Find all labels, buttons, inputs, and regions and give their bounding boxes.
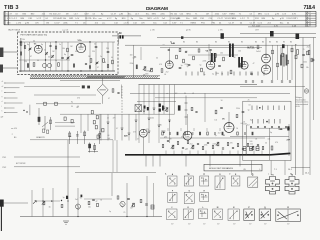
resistor smoothing (271, 146, 273, 150)
component on comb (287, 60, 289, 64)
wire tuner input rail (20, 38, 22, 72)
dashed selector line (121, 86, 123, 114)
svg-text:R2 10k: R2 10k (171, 13, 177, 15)
svg-text:2n2: 2n2 (107, 138, 110, 140)
svg-text:a 170: a 170 (154, 18, 160, 20)
mains section box (243, 101, 291, 160)
component on rectifier lead 2 (87, 86, 90, 89)
wire tuner bottom rail (19, 70, 115, 72)
resistor in output cluster (202, 146, 204, 149)
wire bandswitch vertical upper (138, 85, 140, 102)
chassis tick (239, 155, 241, 166)
earth chassis symbol (63, 221, 69, 224)
wire tuner vertical (61, 42, 63, 71)
svg-text:47: 47 (185, 149, 187, 151)
svg-text:PU2: PU2 (3, 167, 7, 169)
svg-text:470: 470 (113, 117, 116, 119)
wire base link (36, 200, 60, 202)
svg-text:EM84: EM84 (191, 22, 197, 24)
wire V4 anode (208, 44, 210, 60)
resistor output row (184, 132, 186, 135)
junction (42, 200, 43, 201)
svg-text:10k: 10k (306, 67, 309, 69)
svg-text:47: 47 (30, 56, 32, 58)
capacitor heater row (281, 81, 283, 82)
chassis tick (209, 155, 211, 166)
junction (67, 200, 68, 201)
svg-text:357: 357 (287, 224, 290, 226)
svg-text:220k: 220k (145, 74, 149, 76)
wire aerial drop (117, 36, 119, 44)
dark component small (81, 195, 83, 198)
small component mark mains row 2 (257, 119, 259, 124)
coil output row (177, 132, 179, 135)
svg-text:100: 100 (130, 55, 133, 57)
svg-text:6.3V: 6.3V (85, 13, 90, 15)
svg-text:220k: 220k (236, 108, 240, 110)
dark mark top right 1 (221, 33, 224, 39)
wire bandswitch vertical upper (148, 85, 150, 102)
svg-text:100: 100 (220, 52, 223, 54)
wire mid row 2 (36, 103, 101, 105)
capacitor in output cluster (232, 147, 234, 148)
wire bandswitch vertical long (138, 102, 140, 144)
svg-text:R2 10k: R2 10k (60, 18, 66, 20)
small component mark mains row 2 (252, 119, 254, 124)
svg-text:EM84: EM84 (230, 13, 236, 15)
resistor (117, 196, 119, 199)
valve base diagram B (184, 176, 193, 186)
wire chassis bus mid (139, 84, 258, 86)
svg-text:85: 85 (283, 42, 285, 44)
potentiometer volume VR1 (42, 201, 45, 205)
svg-text:85: 85 (276, 42, 278, 44)
svg-text:85: 85 (215, 42, 217, 44)
resistor (308, 50, 310, 55)
svg-text:L4 if: L4 if (135, 13, 139, 15)
component on comb (272, 50, 274, 54)
capacitor mains filter (285, 126, 287, 127)
svg-text:470: 470 (133, 132, 136, 134)
wire tuner vertical (55, 42, 57, 71)
aerial connector symbol (119, 32, 124, 39)
resistor anode V4 (215, 54, 217, 58)
wire tuner vertical (67, 42, 69, 71)
svg-text:5p: 5p (181, 65, 183, 67)
wire from speaker link (111, 173, 113, 196)
transistor TR2 (76, 204, 81, 210)
coil output row (252, 132, 254, 135)
svg-text:MOLEX SET FM BANDS: MOLEX SET FM BANDS (209, 167, 233, 170)
svg-text:4-9: 4-9 (1, 117, 4, 119)
switch contact (143, 110, 146, 112)
junction (80, 70, 81, 71)
svg-text:220k: 220k (243, 123, 247, 125)
wire tuner vertical (107, 42, 109, 71)
resistor in output cluster (212, 145, 214, 148)
small component mark (251, 72, 253, 76)
svg-text:8p: 8p (71, 102, 73, 104)
chassis tick (185, 155, 187, 166)
wire (116, 140, 118, 172)
coil L1 aerial (20, 52, 22, 56)
svg-text:220k: 220k (215, 13, 219, 15)
svg-text:220k: 220k (212, 144, 216, 146)
svg-text:a: a (12, 133, 13, 135)
capacitor heater row (245, 81, 247, 82)
tone network cluster (69, 131, 101, 145)
component on mid row a (44, 102, 47, 105)
component on HT rail (181, 36, 183, 39)
svg-text:2n2: 2n2 (75, 199, 78, 201)
switch contact (163, 131, 166, 133)
terminal dot (4, 98, 5, 99)
switch contact (148, 118, 151, 120)
terminal dot (4, 112, 5, 113)
svg-text:357: 357 (264, 224, 267, 226)
svg-text:6.3V: 6.3V (172, 22, 177, 24)
wire inter-stage link (188, 54, 238, 56)
coil output transformer primary (280, 55, 282, 66)
wire stub (55, 121, 75, 123)
resistor in output cluster (227, 142, 229, 145)
wire to rectifier (102, 79, 104, 85)
wire tuner vertical (101, 42, 103, 71)
svg-text:R9 22k: R9 22k (85, 18, 91, 20)
capacitor right of rectifier (117, 92, 119, 93)
svg-text:EXT SPKR: EXT SPKR (16, 163, 26, 165)
wire stub 2 (55, 125, 75, 127)
svg-text:04: 04 (94, 44, 96, 46)
svg-text:2n2: 2n2 (250, 144, 253, 146)
svg-text:04: 04 (163, 45, 165, 47)
wire feed to bottom left (67, 140, 69, 217)
svg-text:357: 357 (203, 224, 206, 226)
capacitor in output cluster (242, 148, 244, 149)
svg-text:8p: 8p (41, 44, 43, 46)
small component mark (191, 72, 193, 76)
svg-text:a 170: a 170 (124, 22, 130, 24)
svg-text:357: 357 (233, 224, 236, 226)
coupling choke dark (178, 105, 181, 110)
capacitor V3 (179, 67, 182, 68)
small component mark (197, 72, 199, 76)
wire bandswitch vertical short (174, 102, 176, 115)
svg-text:VALVE TABLE: VALVE TABLE (8, 28, 21, 31)
svg-text:AM: AM (124, 135, 128, 138)
svg-text:85: 85 (196, 42, 198, 44)
wire drop from rung (80, 114, 82, 133)
wire vertical 3 (153, 183, 155, 217)
capacitor C7 (95, 46, 98, 47)
svg-text:1M: 1M (206, 13, 209, 15)
wire AM input vertical (133, 45, 135, 78)
svg-text:47: 47 (108, 98, 110, 100)
wire V3 anode (168, 48, 170, 61)
wire tuner vertical (95, 42, 97, 71)
capacitor in output cluster (182, 147, 184, 148)
switch contact (168, 120, 171, 122)
component under rung a (64, 117, 66, 120)
wire mid row (34, 94, 96, 96)
connector outline Q (259, 209, 271, 221)
svg-text:2n: 2n (44, 50, 46, 52)
wire AF grid (187, 114, 189, 131)
capacitor (250, 73, 253, 74)
wire under screened band (60, 80, 120, 82)
wire screen rail (160, 47, 262, 49)
wire output comb vertical (282, 45, 284, 80)
IF transformer footprint T2 (285, 177, 299, 194)
wire drop to bus (229, 151, 231, 156)
switch contact (107, 122, 110, 124)
left edge lead-out (0, 200, 3, 231)
switch contact (163, 107, 166, 109)
terminal dot (4, 108, 5, 109)
wire bandswitch vertical long (148, 102, 150, 144)
wire to rectifier input (24, 86, 80, 88)
junction (26, 111, 27, 112)
svg-text:2n2: 2n2 (247, 124, 250, 126)
svg-text:L4 if: L4 if (75, 18, 79, 20)
svg-text:10k: 10k (62, 48, 65, 50)
svg-text:a 170: a 170 (16, 22, 22, 24)
svg-text:25: 25 (161, 131, 163, 133)
valve V6b output (lower) (261, 65, 270, 74)
small component mark mains row 1 (278, 106, 280, 111)
capacitor mains filter (271, 126, 273, 127)
small component mark (215, 72, 217, 76)
capacitor heater row (252, 81, 254, 82)
valve base diagram A (168, 176, 177, 186)
resistor output row (237, 132, 239, 135)
svg-text:220k: 220k (130, 63, 134, 65)
svg-text:47: 47 (137, 138, 139, 140)
svg-text:85: 85 (269, 42, 271, 44)
small component mark (227, 72, 229, 76)
wire tuner vertical (45, 42, 47, 71)
valve V5 output pentode (224, 123, 234, 133)
wire (268, 128, 270, 160)
wire bandswitch vertical left (114, 114, 116, 140)
resistor in output cluster (237, 143, 239, 146)
svg-text:5p: 5p (215, 135, 217, 137)
svg-text:50u: 50u (153, 22, 156, 24)
svg-text:04: 04 (156, 58, 158, 60)
terminal dot (4, 83, 5, 84)
wire bandswitch vertical upper (174, 85, 176, 102)
coil aerial choke (136, 65, 138, 70)
valve base diagram H (200, 193, 209, 202)
svg-text:2n2: 2n2 (218, 132, 221, 134)
svg-text:osc 420: osc 420 (11, 128, 17, 130)
svg-text:220k: 220k (303, 62, 307, 64)
svg-text:5p: 5p (63, 197, 65, 199)
wire stub output row (193, 128, 195, 131)
wire drop to bus (189, 151, 191, 156)
component on comb (301, 64, 303, 68)
svg-text:470: 470 (275, 142, 278, 144)
svg-text:5p: 5p (187, 66, 189, 68)
wire below rectifier (99, 114, 101, 135)
wire terminal lead (6, 82, 25, 84)
wire V5 anode (228, 112, 230, 123)
svg-text:220: 220 (92, 51, 95, 53)
svg-text:04: 04 (259, 51, 261, 53)
svg-text:470: 470 (230, 143, 233, 145)
wire drop to bus (261, 151, 263, 156)
svg-text:470: 470 (146, 129, 149, 131)
wire drop from rung 2 (87, 114, 89, 131)
svg-text:85: 85 (255, 42, 257, 44)
valve V4 IF amplifier 2 (206, 61, 214, 69)
svg-text:357: 357 (249, 224, 252, 226)
chassis tick (145, 155, 147, 166)
IF transformer dark bars (229, 44, 234, 58)
svg-text:25: 25 (123, 212, 125, 214)
wire V2 cathode drop (142, 137, 144, 154)
resistor grid V5 (215, 110, 217, 114)
electrolytic C40a (243, 147, 246, 151)
wire below mains box (250, 161, 252, 176)
switch contact (121, 128, 124, 130)
svg-text:a2: a2 (2, 86, 4, 88)
component on comb (295, 55, 297, 59)
svg-text:220: 220 (24, 61, 27, 63)
potentiometer volume (165, 108, 168, 112)
wire heater rail lower (240, 86, 305, 88)
wire right rail 4 (309, 44, 311, 175)
small component mark mains row 2 (279, 119, 281, 124)
junction (61, 200, 62, 201)
preset in output cluster (191, 145, 194, 149)
wire HT rail top (157, 37, 316, 39)
wire vertical bottom left 2 (42, 188, 44, 217)
switch contact (148, 131, 151, 133)
terminal dot (4, 87, 5, 88)
wire below mains box 3 (284, 161, 286, 176)
note circle symbol (304, 89, 308, 93)
valve V6a output (upper) (262, 54, 271, 63)
svg-text:04: 04 (133, 58, 135, 60)
svg-text:5p: 5p (212, 74, 214, 76)
component on comb (291, 48, 293, 52)
wire drop to bus (221, 151, 223, 156)
FM tuner unit dashed enclosure (18, 32, 119, 75)
svg-text:100: 100 (88, 206, 91, 208)
capacitor C6 (71, 54, 74, 55)
small component mark (239, 72, 241, 76)
svg-text:04: 04 (33, 41, 35, 43)
svg-text:a 195: a 195 (218, 29, 223, 31)
resistor in output cluster (262, 146, 264, 149)
junction (89, 41, 90, 42)
svg-text:04: 04 (104, 62, 106, 64)
oscillator coil cluster (88, 143, 98, 153)
chassis tick (159, 155, 161, 166)
capacitor heater row (261, 81, 263, 82)
wire vertical (126, 183, 128, 217)
svg-text:85: 85 (228, 42, 230, 44)
wire (140, 47, 142, 60)
transformer core lines (283, 54, 284, 67)
wire drop to bus (237, 151, 239, 156)
wire (112, 140, 114, 172)
plug P2 at left edge (0, 65, 3, 73)
small component mark mains row 2 (274, 119, 276, 124)
svg-text:04: 04 (37, 60, 39, 62)
resistor AF (191, 107, 193, 110)
svg-text:04: 04 (185, 51, 187, 53)
coil output row (222, 132, 224, 135)
svg-text:1M: 1M (46, 22, 49, 24)
wire from left lead (3, 202, 28, 204)
svg-text:R2 10k: R2 10k (50, 13, 56, 15)
connector outline R (276, 209, 301, 222)
resistor right of rectifier (112, 89, 114, 92)
resistor screen V3 (183, 59, 185, 63)
wire terminal lead (6, 102, 23, 104)
wire output comb vertical (277, 45, 279, 80)
svg-text:J: J (171, 207, 172, 209)
small component mark (203, 72, 205, 76)
capacitor mains filter (278, 126, 280, 127)
svg-text:50u: 50u (139, 18, 142, 20)
divider inside wide outline R (287, 210, 289, 222)
svg-text:04: 04 (164, 74, 166, 76)
resistor in tuner (20, 42, 22, 46)
svg-text:04: 04 (75, 51, 77, 53)
wire drop to bus (205, 151, 207, 156)
terminal dot (4, 103, 5, 104)
wire drop to bus (181, 151, 183, 156)
svg-text:6.3V: 6.3V (292, 13, 297, 15)
svg-text:220k: 220k (146, 70, 150, 72)
svg-text:H.T. 210V: H.T. 210V (252, 26, 261, 28)
potentiometer trimmer (143, 67, 146, 71)
plug P1 at left edge (0, 48, 3, 58)
wire vertical bottom left (31, 190, 33, 217)
wire bandswitch vertical short (153, 102, 155, 115)
resistor in output cluster (162, 144, 164, 147)
svg-text:d: d (2, 101, 3, 103)
svg-text:47: 47 (116, 128, 118, 130)
capacitor output row (192, 133, 194, 134)
resistor R2 (33, 63, 35, 67)
svg-text:47: 47 (287, 61, 289, 63)
valve base diagram J (167, 209, 178, 220)
svg-text:357: 357 (188, 224, 191, 226)
svg-text:R2 10k: R2 10k (53, 18, 59, 20)
coil (73, 64, 75, 68)
valve base diagram C (200, 176, 209, 186)
svg-text:osc: osc (102, 22, 105, 24)
capacitor above V3 (168, 49, 170, 50)
svg-text:6.3V: 6.3V (222, 13, 227, 15)
capacitor heater row (271, 81, 273, 82)
small component mark mains row 1 (284, 106, 286, 111)
junction (126, 216, 127, 217)
wire stub output row (206, 128, 208, 131)
svg-text:04: 04 (84, 46, 86, 48)
svg-text:25: 25 (223, 135, 225, 137)
svg-text:c.g. 0.6: c.g. 0.6 (62, 29, 68, 31)
svg-text:357: 357 (217, 224, 220, 226)
valve V4b AF amplifier (183, 131, 192, 140)
wire bandswitch vertical long (158, 102, 160, 144)
wire drop to bus (197, 151, 199, 156)
svg-text:a 170: a 170 (150, 29, 155, 31)
